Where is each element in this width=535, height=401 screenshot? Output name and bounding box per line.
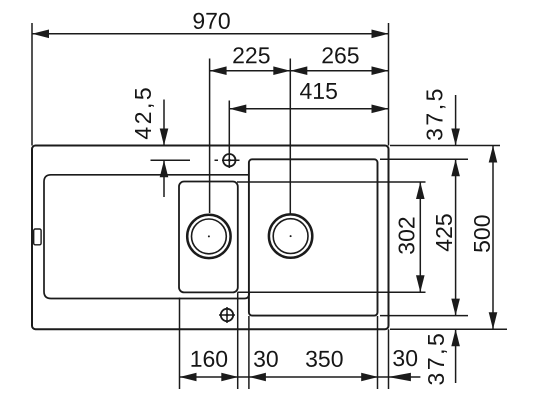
arrow 500 top <box>489 146 498 163</box>
svg-text:30: 30 <box>253 346 279 372</box>
svg-text:350: 350 <box>305 346 343 372</box>
large bowl drain inner <box>273 219 308 254</box>
svg-text:970: 970 <box>192 8 230 34</box>
arrow 160 left <box>180 373 197 382</box>
arrow 42,5 up <box>160 160 169 177</box>
extension line small bowl top right (302) <box>237 181 426 183</box>
dimension line bottom chain 160/30/350/30 <box>180 376 421 378</box>
arrow 415 left <box>229 105 246 114</box>
dimension line 225/265 <box>210 70 389 72</box>
extension line small bowl left bottom <box>179 298 181 390</box>
bottom tap hole <box>221 309 233 321</box>
arrow 970 left <box>32 30 49 39</box>
arrow 500 bottom <box>489 312 498 329</box>
svg-text:160: 160 <box>190 346 228 372</box>
extension line large bowl left bottom <box>248 316 250 389</box>
arrow 42,5 down <box>160 129 169 146</box>
arrow 970 right <box>372 30 389 39</box>
extension line bowl top right (425/37,5) <box>380 158 468 160</box>
small bowl <box>179 182 238 293</box>
small bowl drain center dot <box>208 235 210 237</box>
dimension line 500 <box>492 146 494 330</box>
extension line sink right (970/265/415 + bottom 30) <box>388 23 390 389</box>
extension line small bowl right bottom <box>237 292 239 389</box>
bottom tap hole horizontal centerline <box>219 314 235 316</box>
top tap hole <box>223 154 235 166</box>
arrow 225 left <box>210 66 227 75</box>
svg-text:265: 265 <box>321 42 359 68</box>
arrow 425 top / 37,5 <box>451 159 460 176</box>
svg-text:30: 30 <box>392 345 418 371</box>
large bowl <box>249 159 378 315</box>
extension line small bowl bottom right (302) <box>238 291 426 293</box>
svg-text:500: 500 <box>469 215 495 253</box>
arrow bottom right 30 <box>388 373 411 382</box>
small bowl drain inner <box>192 219 227 254</box>
top tap hole center dot <box>228 159 231 162</box>
extension line large bowl right bottom <box>377 316 379 389</box>
arrow 265 right <box>372 66 389 75</box>
extension line sink top right (500/37,5) <box>390 145 500 147</box>
arrow 425 bottom / 37,5 <box>451 299 460 316</box>
dimension line 42,5 upper leg <box>163 100 165 146</box>
svg-text:302: 302 <box>394 216 420 254</box>
overflow slot on left rim <box>34 229 41 245</box>
dimension line 37,5 top upper leg <box>455 95 457 146</box>
extension line sink left top (970) <box>31 23 33 146</box>
extension line tap hole center (415) <box>228 101 230 169</box>
arrow 350 left / 30 <box>249 373 266 382</box>
dimension line 302 <box>419 182 421 292</box>
arrow 225 right <box>273 66 290 75</box>
top tap hole pointer line (42,5) <box>151 159 191 161</box>
deck inner edge (drainer area) <box>44 175 249 299</box>
arrow 160 right / 30 <box>221 373 238 382</box>
svg-text:37,5: 37,5 <box>422 86 448 141</box>
svg-text:225: 225 <box>232 42 270 68</box>
svg-text:425: 425 <box>431 213 457 251</box>
bottom tap hole center dot <box>226 314 229 317</box>
dimension line 415 <box>229 108 388 110</box>
top tap hole horizontal centerline <box>215 159 240 161</box>
small bowl drain outer <box>187 215 230 258</box>
arrow 37,5 bottom up <box>451 329 460 346</box>
arrow 302 top <box>416 182 425 199</box>
large bowl drain outer <box>269 214 312 257</box>
dimension line 970 <box>32 33 389 35</box>
sink outer rim <box>32 146 389 330</box>
extension line small drain center <box>209 59 211 214</box>
extension line sink bottom right (500/37,5) <box>390 328 507 330</box>
svg-text:42,5: 42,5 <box>130 85 156 140</box>
bottom tap hole vertical centerline <box>226 307 228 323</box>
arrow 265 left <box>290 66 307 75</box>
extension line bowl bottom right (425/37,5) <box>380 315 468 317</box>
dimension line 42,5 lower leg <box>163 160 165 197</box>
arrow 415 right <box>372 105 389 114</box>
extension line large drain center <box>289 59 291 215</box>
arrow 350 right / 30 <box>361 373 378 382</box>
arrow 302 bottom <box>416 275 425 292</box>
svg-text:37,5: 37,5 <box>423 331 449 386</box>
dimension line 37,5 bottom lower leg <box>455 329 457 383</box>
dimension line 425 <box>455 159 457 315</box>
svg-text:415: 415 <box>300 78 338 104</box>
large bowl drain center dot <box>290 235 292 237</box>
arrow 37,5 top down <box>451 129 460 146</box>
